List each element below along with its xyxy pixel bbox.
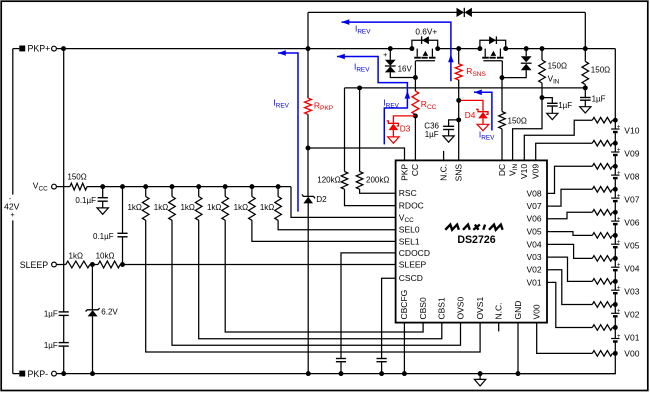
capacitor 0.1uF at SLEEP: [120, 184, 125, 189]
wire: [403, 323, 405, 374]
svg-text:0.6V+: 0.6V+: [415, 26, 437, 36]
svg-text:150Ω: 150Ω: [591, 66, 610, 75]
wire: [513, 98, 542, 161]
resistor V02 tap: [592, 302, 612, 308]
svg-text:OVS0: OVS0: [455, 297, 465, 320]
wire: [64, 48, 412, 50]
pin V09 top: [531, 164, 541, 179]
transistor Q2 discharge FET: [477, 46, 482, 51]
diode 6.2V zener: [91, 265, 93, 310]
svg-text:D2: D2: [316, 195, 327, 204]
svg-text:V05: V05: [624, 241, 639, 251]
diode D2 zener: [307, 148, 309, 196]
resistor 1k sleep: [66, 261, 90, 268]
svg-text:+: +: [617, 285, 621, 292]
svg-text:120kΩ: 120kΩ: [317, 176, 340, 185]
pin N.C. bottom stub: [498, 323, 500, 332]
wire: [64, 373, 616, 375]
pin CBS0 bottom: [418, 297, 428, 319]
svg-text:DC: DC: [497, 164, 507, 176]
svg-text:150Ω: 150Ω: [548, 61, 567, 70]
wire: [13, 48, 19, 50]
node V06 tap: [613, 210, 618, 215]
wire: [87, 186, 291, 188]
wire V07 pin to tap: [550, 189, 592, 206]
current arrow IREV middle: [337, 57, 407, 145]
current arrow IREV top: [342, 22, 451, 81]
pin CC top: [410, 164, 420, 176]
wire: [345, 87, 586, 89]
svg-text:+: +: [617, 308, 621, 315]
svg-text:VCC: VCC: [33, 181, 48, 193]
svg-text:V03: V03: [526, 252, 541, 262]
wire: [225, 220, 423, 332]
svg-text:RSC: RSC: [399, 188, 417, 198]
svg-text:V08: V08: [624, 172, 639, 182]
wire: [584, 12, 586, 48]
wire V01 pin to tap: [550, 282, 592, 327]
svg-text:N.C.: N.C.: [494, 303, 504, 320]
battery cell 5: [614, 235, 616, 244]
battery cell 3: [614, 281, 616, 290]
svg-text:V09: V09: [624, 148, 639, 158]
svg-text:200kΩ: 200kΩ: [366, 176, 389, 185]
svg-text:1µF: 1µF: [558, 101, 572, 110]
svg-text:+: +: [617, 215, 621, 222]
svg-text:V02: V02: [624, 310, 639, 320]
pin V00 bottom: [532, 304, 542, 319]
resistor V05 tap: [592, 233, 612, 239]
resistor 1k #5: [249, 184, 254, 189]
svg-text:+: +: [617, 333, 621, 340]
pin N.C. top stub: [443, 151, 445, 161]
resistor V03 tap: [592, 279, 612, 285]
battery cell 7: [614, 189, 616, 198]
wire: [308, 148, 405, 160]
svg-text:IREV: IREV: [355, 23, 371, 35]
wire: [146, 220, 480, 352]
svg-text:D3: D3: [400, 124, 411, 134]
svg-text:VIN: VIN: [548, 75, 560, 86]
svg-text:CDOCD: CDOCD: [399, 248, 430, 258]
svg-text:V06: V06: [526, 214, 541, 224]
svg-text:V10: V10: [624, 125, 639, 135]
capacitor 1uF at VIN node: [540, 95, 545, 100]
wire: [414, 115, 416, 161]
node V03 tap: [613, 279, 618, 284]
resistor V07 tap: [592, 187, 612, 193]
svg-text:RPKP: RPKP: [314, 100, 333, 112]
svg-text:V04: V04: [526, 239, 541, 249]
svg-text:150Ω: 150Ω: [67, 173, 86, 182]
pin GND bottom: [513, 301, 523, 320]
resistor 1k #1: [143, 184, 148, 189]
resistor V01 tap: [592, 325, 612, 331]
resistor 150ohm DC: [501, 78, 503, 112]
resistor 1k #3: [196, 184, 201, 189]
svg-text:+: +: [617, 146, 621, 153]
svg-text:PKP: PKP: [399, 164, 409, 181]
svg-text:V00: V00: [624, 348, 639, 358]
resistor 1k #4: [223, 184, 228, 189]
svg-text:+: +: [10, 210, 14, 219]
capacitor at CSCD: [382, 278, 396, 358]
battery cell 10: [614, 120, 616, 129]
resistor 10k sleep: [98, 261, 120, 268]
capacitor 1uF right: [580, 97, 591, 99]
current arrow IREV left: [278, 53, 298, 212]
node V08 tap: [613, 164, 618, 169]
wire V10 pin to tap: [524, 120, 592, 160]
node V04 tap: [613, 256, 618, 261]
wire: [199, 220, 442, 338]
wire: [291, 187, 396, 218]
svg-text:0.1µF: 0.1µF: [75, 196, 96, 205]
svg-text:V08: V08: [526, 188, 541, 198]
wire: [307, 12, 309, 48]
svg-text:SEL0: SEL0: [399, 225, 420, 235]
resistor RPKP: [307, 49, 309, 99]
wire V02 pin to tap: [550, 270, 592, 305]
svg-text:IREV: IREV: [354, 61, 370, 73]
capacitor C36: [449, 120, 459, 126]
pin SNS top: [454, 164, 464, 182]
battery cell 4: [614, 258, 616, 267]
svg-text:V05: V05: [526, 227, 541, 237]
op-amp U1 DS2726: [396, 160, 547, 322]
resistor 150ohm VCC: [70, 183, 87, 190]
resistor 150ohm VIN: [541, 49, 543, 60]
capacitor 0.1uF at VCC: [100, 184, 105, 189]
wire: [172, 220, 461, 345]
capacitor 1uF lower left: [63, 315, 65, 342]
pin DC top: [497, 164, 507, 176]
resistor V00 tap: [592, 351, 612, 357]
pin OVS1 bottom: [475, 297, 485, 320]
pin OVS0 bottom: [455, 297, 465, 320]
svg-text:IREV: IREV: [383, 98, 399, 110]
node V02 tap: [613, 302, 618, 307]
resistor RSNS: [458, 49, 460, 64]
TVS D6 gate clamp: [525, 49, 527, 57]
resistor 1k #2: [170, 184, 175, 189]
svg-text:RDOC: RDOC: [399, 201, 424, 211]
wire V04 pin to tap: [550, 244, 592, 258]
pin VIN top: [507, 164, 519, 176]
wire: [506, 48, 616, 50]
svg-text:V03: V03: [624, 287, 639, 297]
svg-text:+: +: [617, 262, 621, 269]
svg-text:V00: V00: [532, 304, 542, 319]
svg-text:V10: V10: [519, 164, 529, 179]
battery 42V pack: [12, 49, 14, 195]
TVS 16V: [389, 49, 391, 60]
diode pair D5 back-to-back on top rail: [457, 8, 465, 17]
svg-text:V01: V01: [624, 333, 639, 343]
battery cell 2: [614, 305, 616, 314]
svg-text:IREV: IREV: [479, 129, 495, 141]
svg-text:1µF: 1µF: [44, 310, 58, 319]
wire V06 pin to tap: [550, 212, 592, 219]
svg-text:V07: V07: [526, 201, 541, 211]
svg-text:SLEEP: SLEEP: [399, 260, 427, 270]
resistor 150ohm right: [582, 61, 589, 84]
resistor 200k: [356, 172, 363, 190]
wire: [308, 11, 457, 13]
pin CBCFG bottom: [399, 290, 409, 320]
resistor V10 tap: [592, 117, 612, 123]
svg-text:V07: V07: [624, 195, 639, 205]
svg-text:+: +: [617, 192, 621, 199]
node V00 tap: [613, 351, 618, 356]
svg-text:1kΩ: 1kΩ: [180, 203, 194, 212]
battery cell 9: [614, 143, 616, 152]
logo MAXIM: [445, 225, 502, 230]
svg-text:V09: V09: [531, 164, 541, 179]
node V05 tap: [613, 233, 618, 238]
wire: [614, 49, 616, 121]
svg-text:SLEEP: SLEEP: [20, 260, 48, 270]
svg-text:V02: V02: [526, 265, 541, 275]
wire V05 pin to tap: [550, 232, 592, 236]
resistor V09 tap: [592, 140, 612, 146]
resistor V04 tap: [592, 256, 612, 262]
svg-text:+: +: [617, 239, 621, 246]
svg-text:SNS: SNS: [454, 164, 464, 182]
svg-text:1µF: 1µF: [592, 94, 606, 103]
wire V03 pin to tap: [550, 257, 592, 281]
svg-text:+: +: [383, 50, 387, 59]
svg-text:+: +: [617, 123, 621, 130]
svg-text:CBCFG: CBCFG: [399, 290, 409, 320]
svg-text:1kΩ: 1kΩ: [127, 203, 141, 212]
svg-text:1µF: 1µF: [44, 341, 58, 350]
svg-text:N.C.: N.C.: [438, 164, 448, 181]
svg-text:1kΩ: 1kΩ: [207, 203, 221, 212]
svg-text:16V: 16V: [398, 65, 413, 74]
svg-text:RSNS: RSNS: [466, 66, 486, 78]
svg-text:6.2V: 6.2V: [101, 308, 118, 317]
capacitor at CDOCD: [341, 253, 396, 359]
pin N.C. top: [438, 164, 448, 181]
pin V10 top: [519, 164, 529, 179]
current arrow IREV at D4: [474, 92, 492, 130]
resistor 120k: [341, 172, 348, 190]
wire: [517, 323, 519, 374]
pin PKP top: [399, 164, 409, 181]
wire: [252, 220, 396, 241]
resistor V08 tap: [592, 164, 612, 170]
resistor V06 tap: [592, 210, 612, 216]
transistor Q1 charge FET: [409, 46, 414, 51]
svg-text:CBS1: CBS1: [437, 297, 447, 319]
diode D3: [393, 116, 415, 123]
svg-text:SEL1: SEL1: [399, 236, 420, 246]
wire: [518, 353, 615, 373]
svg-text:1kΩ: 1kΩ: [69, 252, 83, 261]
node V10 tap: [613, 118, 618, 123]
resistor 1k #6: [276, 184, 281, 189]
svg-text:1kΩ: 1kΩ: [260, 203, 274, 212]
svg-text:PKP+: PKP+: [28, 44, 51, 54]
wire: [278, 220, 396, 230]
svg-text:CC: CC: [410, 164, 420, 176]
svg-text:0.1µF: 0.1µF: [93, 232, 114, 241]
svg-text:D4: D4: [465, 110, 476, 120]
node V01 tap: [613, 325, 618, 330]
resistor RCC: [414, 78, 416, 92]
wire: [344, 88, 346, 172]
pin CBS1 bottom: [437, 297, 447, 319]
svg-text:10kΩ: 10kΩ: [96, 252, 115, 261]
diode D4: [459, 100, 483, 111]
battery cell 6: [614, 212, 616, 221]
wire V08 pin to tap: [550, 166, 592, 193]
svg-text:V01: V01: [526, 277, 541, 287]
svg-text:CBS0: CBS0: [418, 297, 428, 319]
wire: [120, 264, 395, 266]
svg-text:PKP-: PKP-: [28, 369, 49, 379]
svg-text:OVS1: OVS1: [475, 297, 485, 320]
svg-text:1kΩ: 1kΩ: [234, 203, 248, 212]
wire: [472, 11, 585, 13]
svg-text:IREV: IREV: [273, 98, 289, 110]
capacitor 1uF upper left: [63, 49, 65, 312]
wire V09 pin to tap: [536, 143, 593, 160]
svg-text:GND: GND: [513, 301, 523, 320]
svg-text:V06: V06: [624, 218, 639, 228]
node PKP junction: [306, 146, 311, 151]
battery cell 1: [614, 328, 616, 339]
wire: [359, 88, 361, 172]
pin N.C. bottom: [494, 303, 504, 320]
svg-text:CSCD: CSCD: [399, 273, 423, 283]
wire: [458, 80, 460, 160]
svg-text:1kΩ: 1kΩ: [154, 203, 168, 212]
battery cell 8: [614, 166, 616, 175]
wire: [438, 48, 480, 50]
svg-text:+: +: [617, 169, 621, 176]
svg-text:1µF: 1µF: [425, 130, 439, 139]
svg-text:150Ω: 150Ω: [508, 116, 527, 125]
ground: [479, 374, 481, 380]
node V07 tap: [613, 187, 618, 192]
wire: [537, 323, 593, 354]
terminal PKP-: [13, 373, 19, 375]
svg-text:DS2726: DS2726: [457, 234, 495, 246]
svg-text:RCC: RCC: [421, 99, 437, 111]
svg-text:V04: V04: [624, 264, 639, 274]
terminal PKP+: [19, 46, 25, 52]
node V09 tap: [613, 141, 618, 146]
